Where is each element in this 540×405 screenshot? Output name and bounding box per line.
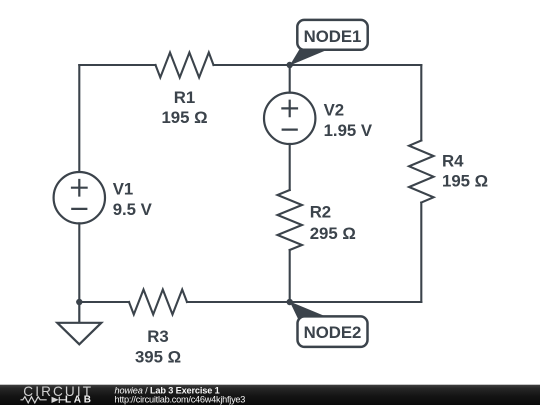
node NODE2 junction dot	[287, 299, 293, 305]
svg-text:http://circuitlab.com/c46w4kjh: http://circuitlab.com/c46w4kjhfjye3	[115, 395, 246, 405]
svg-text:LAB: LAB	[65, 395, 94, 405]
svg-text:V1: V1	[113, 180, 134, 199]
resistor R1	[156, 53, 214, 78]
svg-text:295 Ω: 295 Ω	[310, 224, 356, 243]
wire R2 to NODE2	[289, 250, 291, 302]
svg-text:1.95 V: 1.95 V	[324, 121, 373, 140]
svg-text:R2: R2	[310, 203, 331, 222]
svg-text:195 Ω: 195 Ω	[161, 108, 207, 127]
svg-text:R4: R4	[442, 151, 464, 170]
wire bottom middle (R3 to NODE2)	[187, 301, 290, 303]
svg-text:NODE1: NODE1	[304, 27, 362, 46]
svg-text:V2: V2	[324, 100, 345, 119]
wire top right segment	[290, 64, 422, 66]
node junction dot (ground node)	[76, 299, 82, 305]
node NODE1 junction dot	[287, 62, 293, 68]
svg-text:9.5 V: 9.5 V	[113, 200, 153, 219]
ground	[57, 302, 101, 344]
svg-text:R3: R3	[147, 327, 168, 346]
svg-text:NODE2: NODE2	[304, 323, 362, 342]
svg-text:395 Ω: 395 Ω	[135, 347, 181, 366]
resistor R4	[409, 141, 434, 203]
label NODE2 box	[298, 316, 368, 347]
label NODE1 tail	[290, 48, 327, 65]
wire left vertical (top corner to V1 top)	[78, 65, 80, 172]
wire R1 to NODE1	[214, 64, 290, 66]
label NODE2 tail	[290, 302, 327, 321]
resistor R3	[129, 290, 187, 315]
resistor R2	[278, 190, 303, 250]
wire top left segment	[79, 64, 155, 66]
label NODE1 box	[297, 20, 367, 50]
voltage source V1	[54, 172, 105, 223]
logo resistor-diode symbol	[21, 397, 67, 403]
wire bottom right segment	[290, 301, 422, 303]
svg-text:195 Ω: 195 Ω	[442, 171, 488, 190]
wire bottom left (node to R3)	[79, 301, 129, 303]
wire V2 bottom to R2	[289, 144, 291, 190]
voltage source V2	[264, 93, 315, 144]
footer bar	[0, 385, 540, 405]
wire V1 bottom to ground node	[78, 223, 80, 302]
wire R4 to bottom right corner	[420, 203, 422, 303]
svg-text:R1: R1	[174, 88, 195, 107]
wire NODE1 to V2 top	[289, 65, 291, 93]
wire right vertical top (corner to R4)	[420, 65, 422, 141]
